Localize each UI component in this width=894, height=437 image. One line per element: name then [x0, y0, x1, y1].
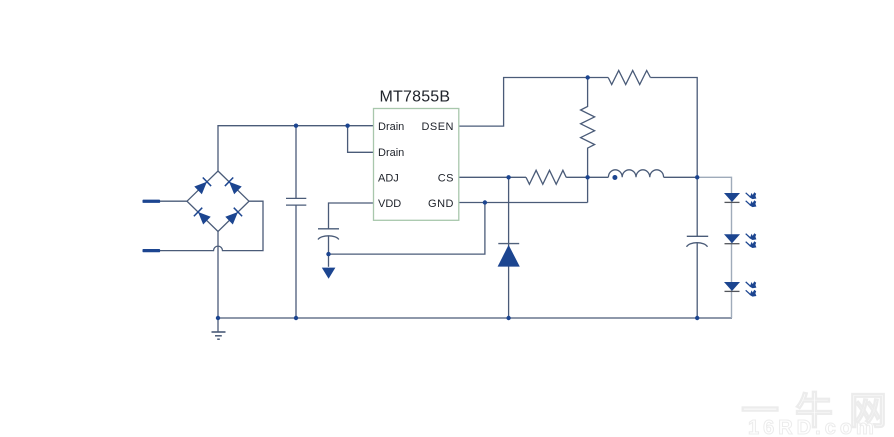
svg-text:DSEN: DSEN	[421, 121, 454, 133]
svg-text:VDD: VDD	[378, 198, 401, 210]
svg-text:CS: CS	[438, 172, 454, 184]
svg-text:ADJ: ADJ	[378, 172, 399, 184]
svg-text:MT7855B: MT7855B	[380, 89, 451, 106]
svg-text:Drain: Drain	[378, 121, 404, 133]
svg-text:Drain: Drain	[378, 147, 404, 159]
svg-text:GND: GND	[428, 198, 454, 210]
